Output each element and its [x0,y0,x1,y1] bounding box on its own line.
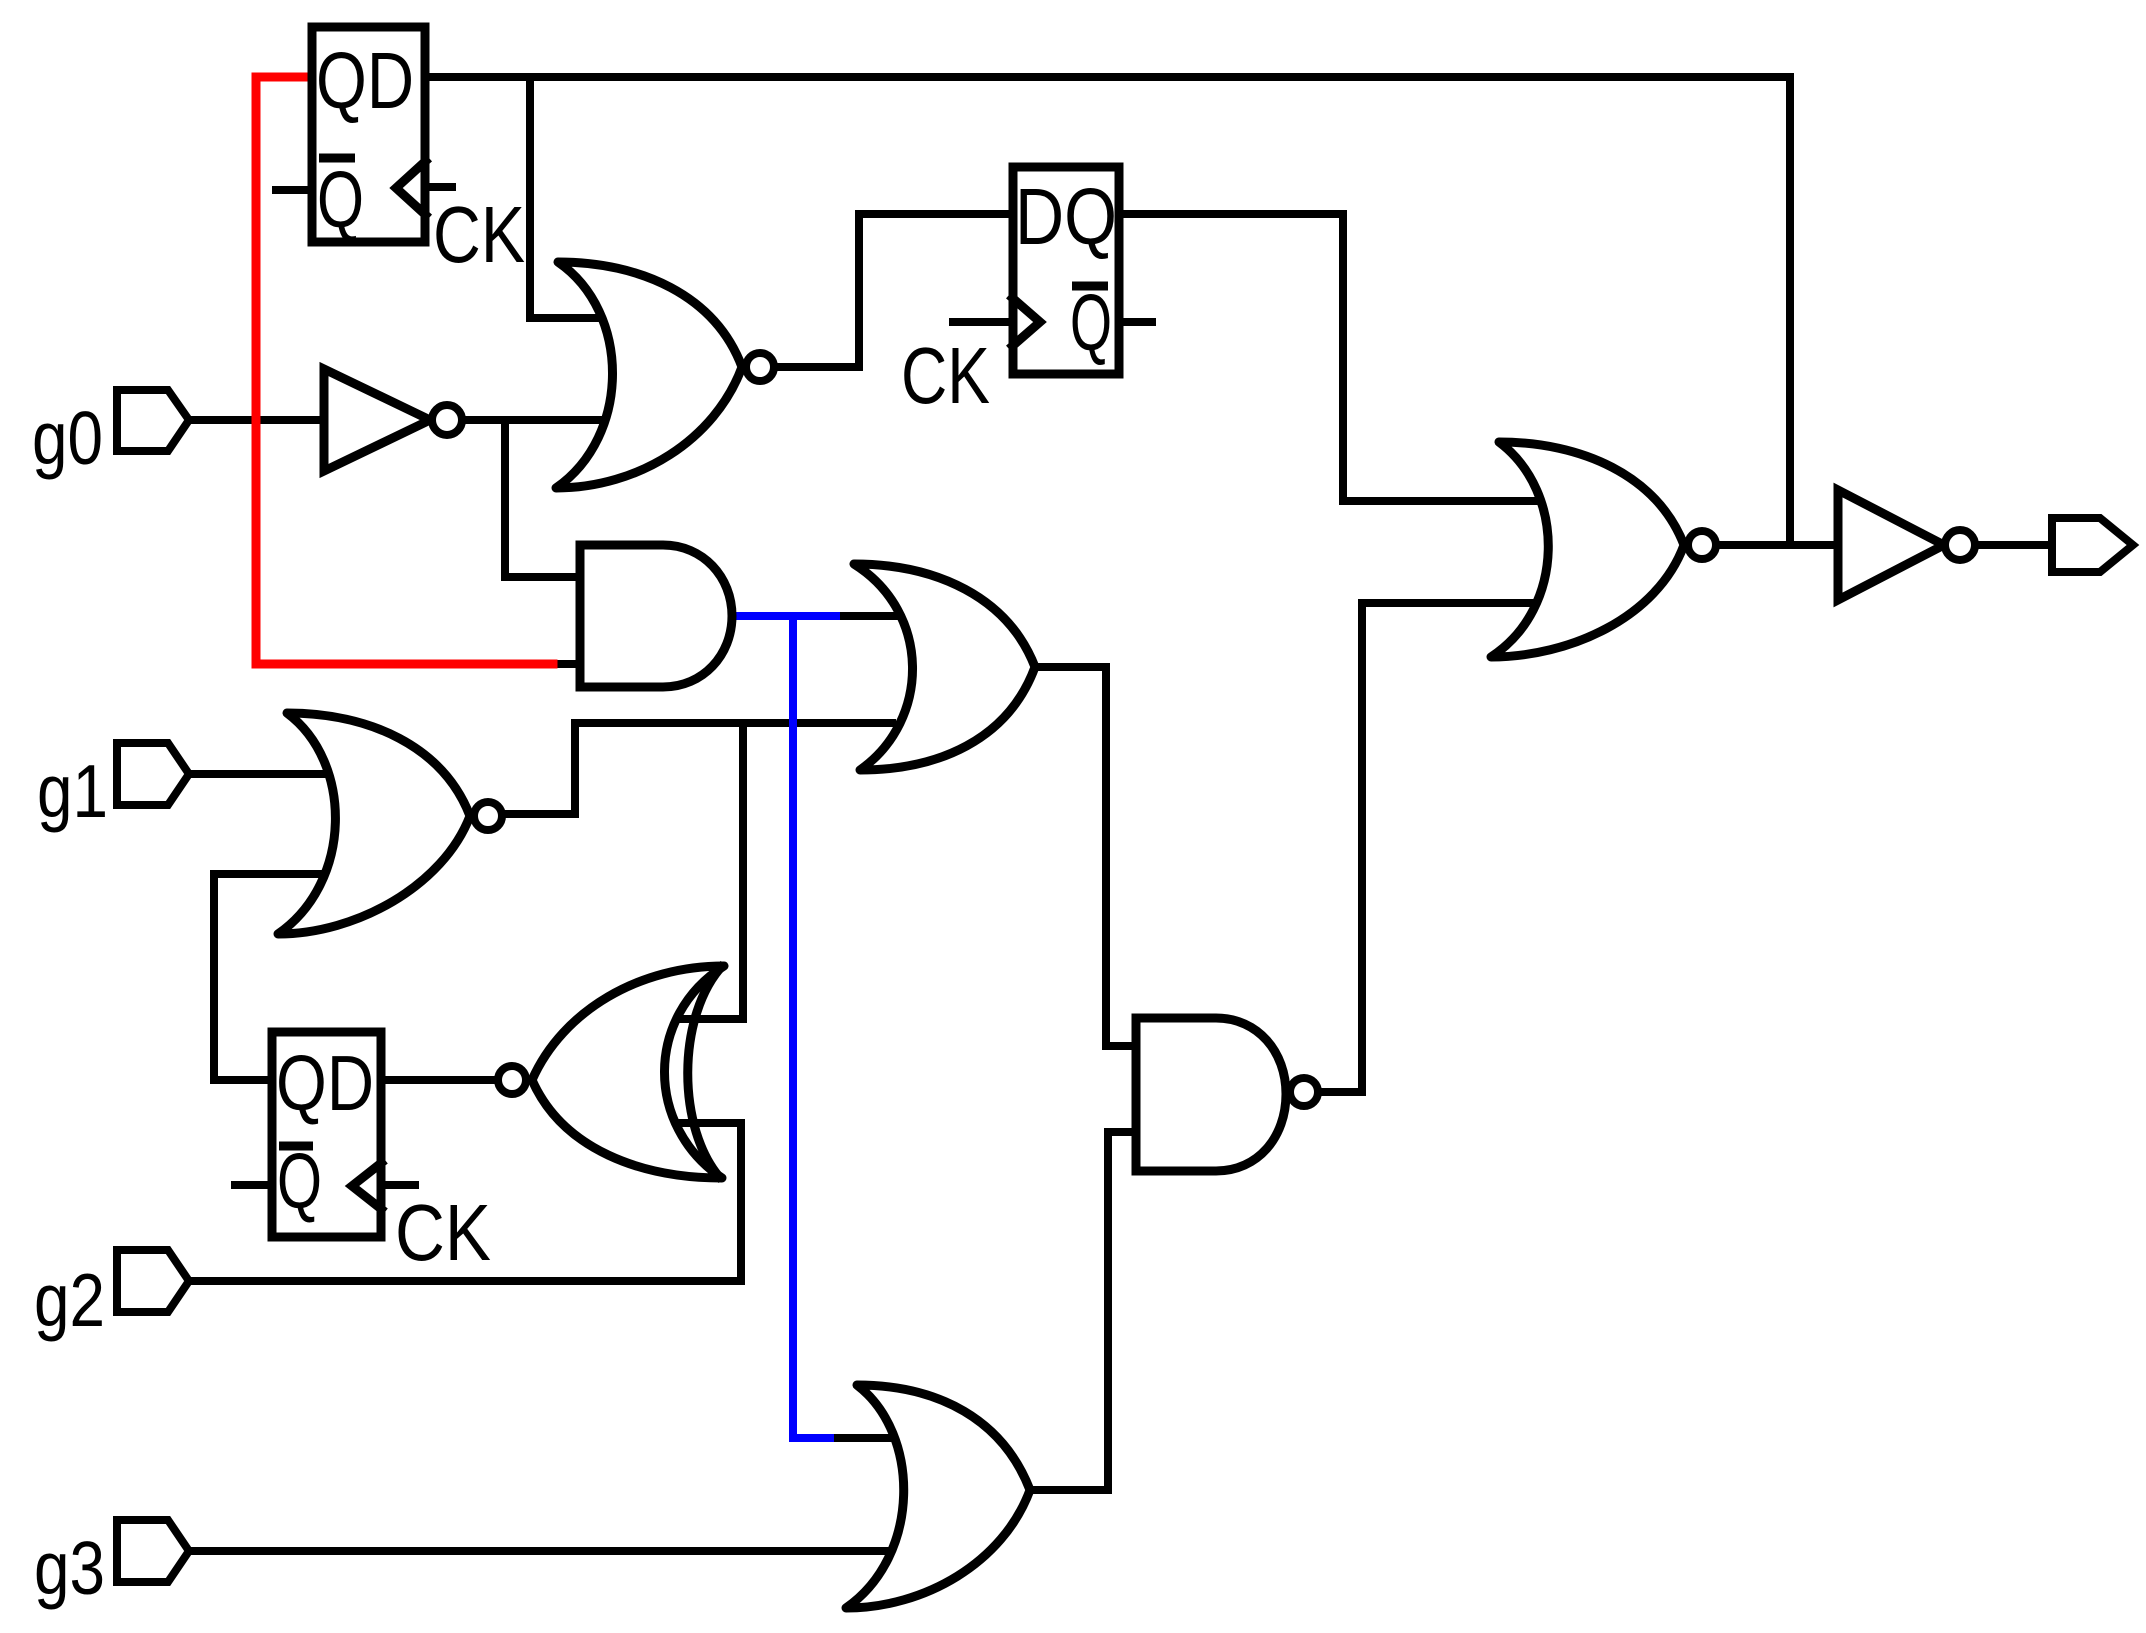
port g3 [117,1520,189,1582]
wire FF U2 Qbar stub [1123,318,1152,326]
XNOR U9 (mirrored, output on left) [498,964,724,1180]
wire g3 input to OR U11 lower input [188,1547,890,1555]
svg-text:g1: g1 [37,749,108,833]
wire g1 input to NOR U8 upper input [188,770,335,778]
wire branch from inverter output down to AND U6 upper input [505,420,580,577]
wire FF U2 Q output to NOR U12 upper input [1123,214,1550,501]
AND U6 [580,545,732,687]
NAND U10 [1136,1018,1318,1171]
wire inverter U13 output to output port [1975,541,2052,549]
svg-text:CK: CK [395,1188,491,1277]
port g0 [117,390,189,451]
wire red feedback FF U1 Q to AND U6 lower input [256,77,553,664]
port g2 [117,1250,189,1312]
flip-flop U3 body (bottom QD) [272,1032,381,1237]
wire XNOR U9 output to FF U3 D input [385,1076,495,1084]
svg-text:QD: QD [316,36,414,125]
wire FF U3 CK stub [385,1181,415,1189]
OR U7 (middle) [854,564,1035,770]
wire FF U3 Qbar stub [235,1181,268,1189]
svg-text:Q: Q [1070,278,1112,367]
NOR U8 (g1) [278,713,502,934]
flip-flop U1 body [312,27,425,242]
svg-text:CK: CK [901,331,990,420]
flip-flop U2 clock triangle [1009,295,1040,349]
svg-text:g2: g2 [34,1258,105,1342]
wire OR U7 output to NAND U10 upper input [1035,667,1136,1046]
wire g0 input to inverter U4 [188,416,324,424]
wire NOR U12 output to inverter U13 [1718,541,1838,549]
wire AND U6 output stub [730,612,900,620]
wire NOR U5 output to FF U2 D input [776,214,1009,367]
svg-text:CK: CK [433,190,525,279]
svg-text:Q: Q [317,155,364,244]
NOR U12 (right) [1491,442,1716,657]
wire branch from top wire down to NOR gate U5 upper input [530,77,604,318]
svg-text:DQ: DQ [1015,172,1117,261]
wire black stub red wire to AND U6 lower input [551,660,580,668]
output port [2052,518,2133,572]
svg-text:QD: QD [276,1039,374,1127]
OR U11 (bottom) [846,1385,1030,1608]
svg-text:g0: g0 [32,396,103,480]
flip-flop U1 clock triangle [396,158,429,218]
wire FF U3 Q output up to NOR U8 lower input [214,874,332,1080]
flip-flop U3 clock triangle [352,1160,385,1212]
wire FF U2 CK stub [953,318,1009,326]
wire NOR U8 output to OR U7 lower input [505,723,892,814]
svg-text:g3: g3 [34,1526,105,1610]
inverter U4 (g0) [324,369,430,471]
wire OR U11 output to NAND U10 lower input [1030,1132,1136,1490]
wire g2 input up to XNOR U9 lower input [188,1123,741,1281]
wire black stub blue wire to OR U11 upper input [828,1434,895,1442]
NOR U5 (top middle) [556,262,774,488]
wire FF U1 Qbar stub [276,186,308,194]
flip-flop U2 body (DQ) [1013,167,1119,374]
wire inverter U4 output to NOR U5 lower input [462,416,610,424]
wire NAND U10 output to NOR U12 lower input [1322,603,1550,1092]
wire branch down to XNOR U9 upper input [668,723,743,1019]
wire feedback vertical from top wire down to NOR2 output node [1786,77,1794,545]
wire FF1.D to feedback node (top) [429,73,1790,81]
inverter U13 (output) [1838,490,1975,600]
wire blue AND U6 output to OR U7 and OR U11 [740,616,836,1438]
port g1 [117,743,189,805]
wire FF U1 CK stub [429,183,452,191]
